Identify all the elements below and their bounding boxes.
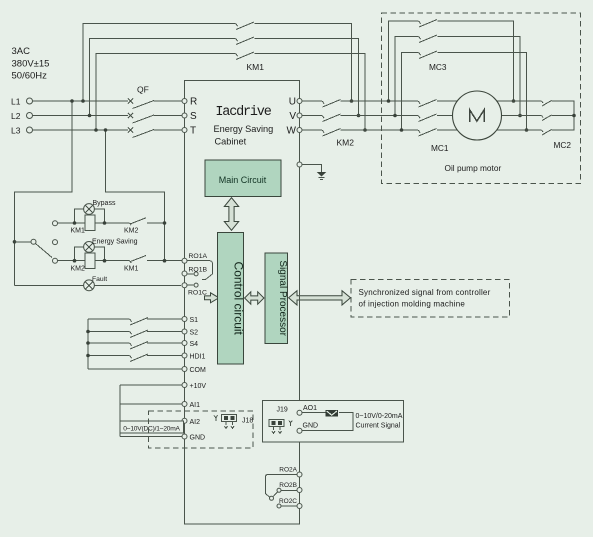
svg-text:of injection molding machine: of injection molding machine	[359, 300, 466, 309]
svg-text:AI1: AI1	[190, 402, 201, 409]
svg-text:Energy Saving: Energy Saving	[214, 124, 274, 134]
svg-text:50/60Hz: 50/60Hz	[12, 71, 48, 82]
svg-text:J18: J18	[242, 418, 253, 425]
svg-text:AO1: AO1	[303, 405, 317, 412]
svg-text:0~10V(DC)/1~20mA: 0~10V(DC)/1~20mA	[123, 425, 180, 432]
svg-text:S4: S4	[190, 341, 199, 348]
svg-text:L3: L3	[11, 125, 21, 135]
svg-text:Current Signal: Current Signal	[356, 423, 401, 430]
svg-text:Synchronized signal from contr: Synchronized signal from controller	[359, 288, 491, 297]
svg-text:KM2: KM2	[337, 138, 355, 148]
svg-text:Oil pump motor: Oil pump motor	[445, 163, 502, 173]
svg-text:KM2: KM2	[71, 266, 86, 273]
svg-text:RO2C: RO2C	[279, 498, 297, 505]
svg-text:MC3: MC3	[429, 62, 447, 72]
svg-text:Energy Saving: Energy Saving	[92, 239, 138, 246]
svg-text:Bypass: Bypass	[93, 200, 116, 207]
svg-text:MC2: MC2	[554, 140, 572, 150]
svg-text:HDI1: HDI1	[190, 354, 206, 361]
svg-text:Main Circuit: Main Circuit	[219, 175, 267, 185]
svg-text:3AC: 3AC	[12, 46, 31, 57]
svg-text:KM1: KM1	[247, 62, 265, 72]
svg-text:U: U	[289, 97, 296, 108]
svg-text:S1: S1	[190, 317, 199, 324]
svg-text:COM: COM	[190, 367, 207, 374]
svg-text:MC1: MC1	[431, 143, 449, 153]
svg-text:Control circuit: Control circuit	[232, 262, 246, 336]
svg-text:0~10V/0-20mA: 0~10V/0-20mA	[356, 413, 403, 420]
svg-text:KM1: KM1	[71, 228, 86, 235]
svg-text:T: T	[190, 126, 196, 137]
svg-text:RO1A: RO1A	[189, 253, 208, 260]
svg-text:RO1B: RO1B	[189, 267, 208, 274]
svg-text:GND: GND	[303, 422, 319, 429]
svg-text:L1: L1	[11, 96, 21, 106]
svg-text:Iacdrive: Iacdrive	[215, 105, 271, 120]
svg-text:S2: S2	[190, 330, 199, 337]
svg-text:W: W	[287, 126, 297, 137]
svg-text:Signal Processor: Signal Processor	[277, 260, 288, 336]
svg-text:L2: L2	[11, 111, 21, 121]
svg-text:+10V: +10V	[190, 383, 207, 390]
svg-text:Cabinet: Cabinet	[215, 136, 247, 146]
svg-text:KM1: KM1	[124, 266, 139, 273]
svg-text:QF: QF	[137, 85, 149, 95]
svg-text:KM2: KM2	[124, 228, 139, 235]
svg-text:Fault: Fault	[92, 276, 107, 283]
svg-text:AI2: AI2	[190, 419, 201, 426]
svg-text:R: R	[190, 97, 197, 108]
svg-text:380V±15: 380V±15	[12, 59, 50, 70]
svg-text:J19: J19	[277, 407, 288, 414]
svg-text:S: S	[190, 111, 197, 122]
svg-text:RO2B: RO2B	[279, 482, 297, 489]
svg-text:V: V	[289, 111, 296, 122]
svg-text:GND: GND	[190, 435, 206, 442]
svg-text:RO2A: RO2A	[279, 466, 297, 473]
